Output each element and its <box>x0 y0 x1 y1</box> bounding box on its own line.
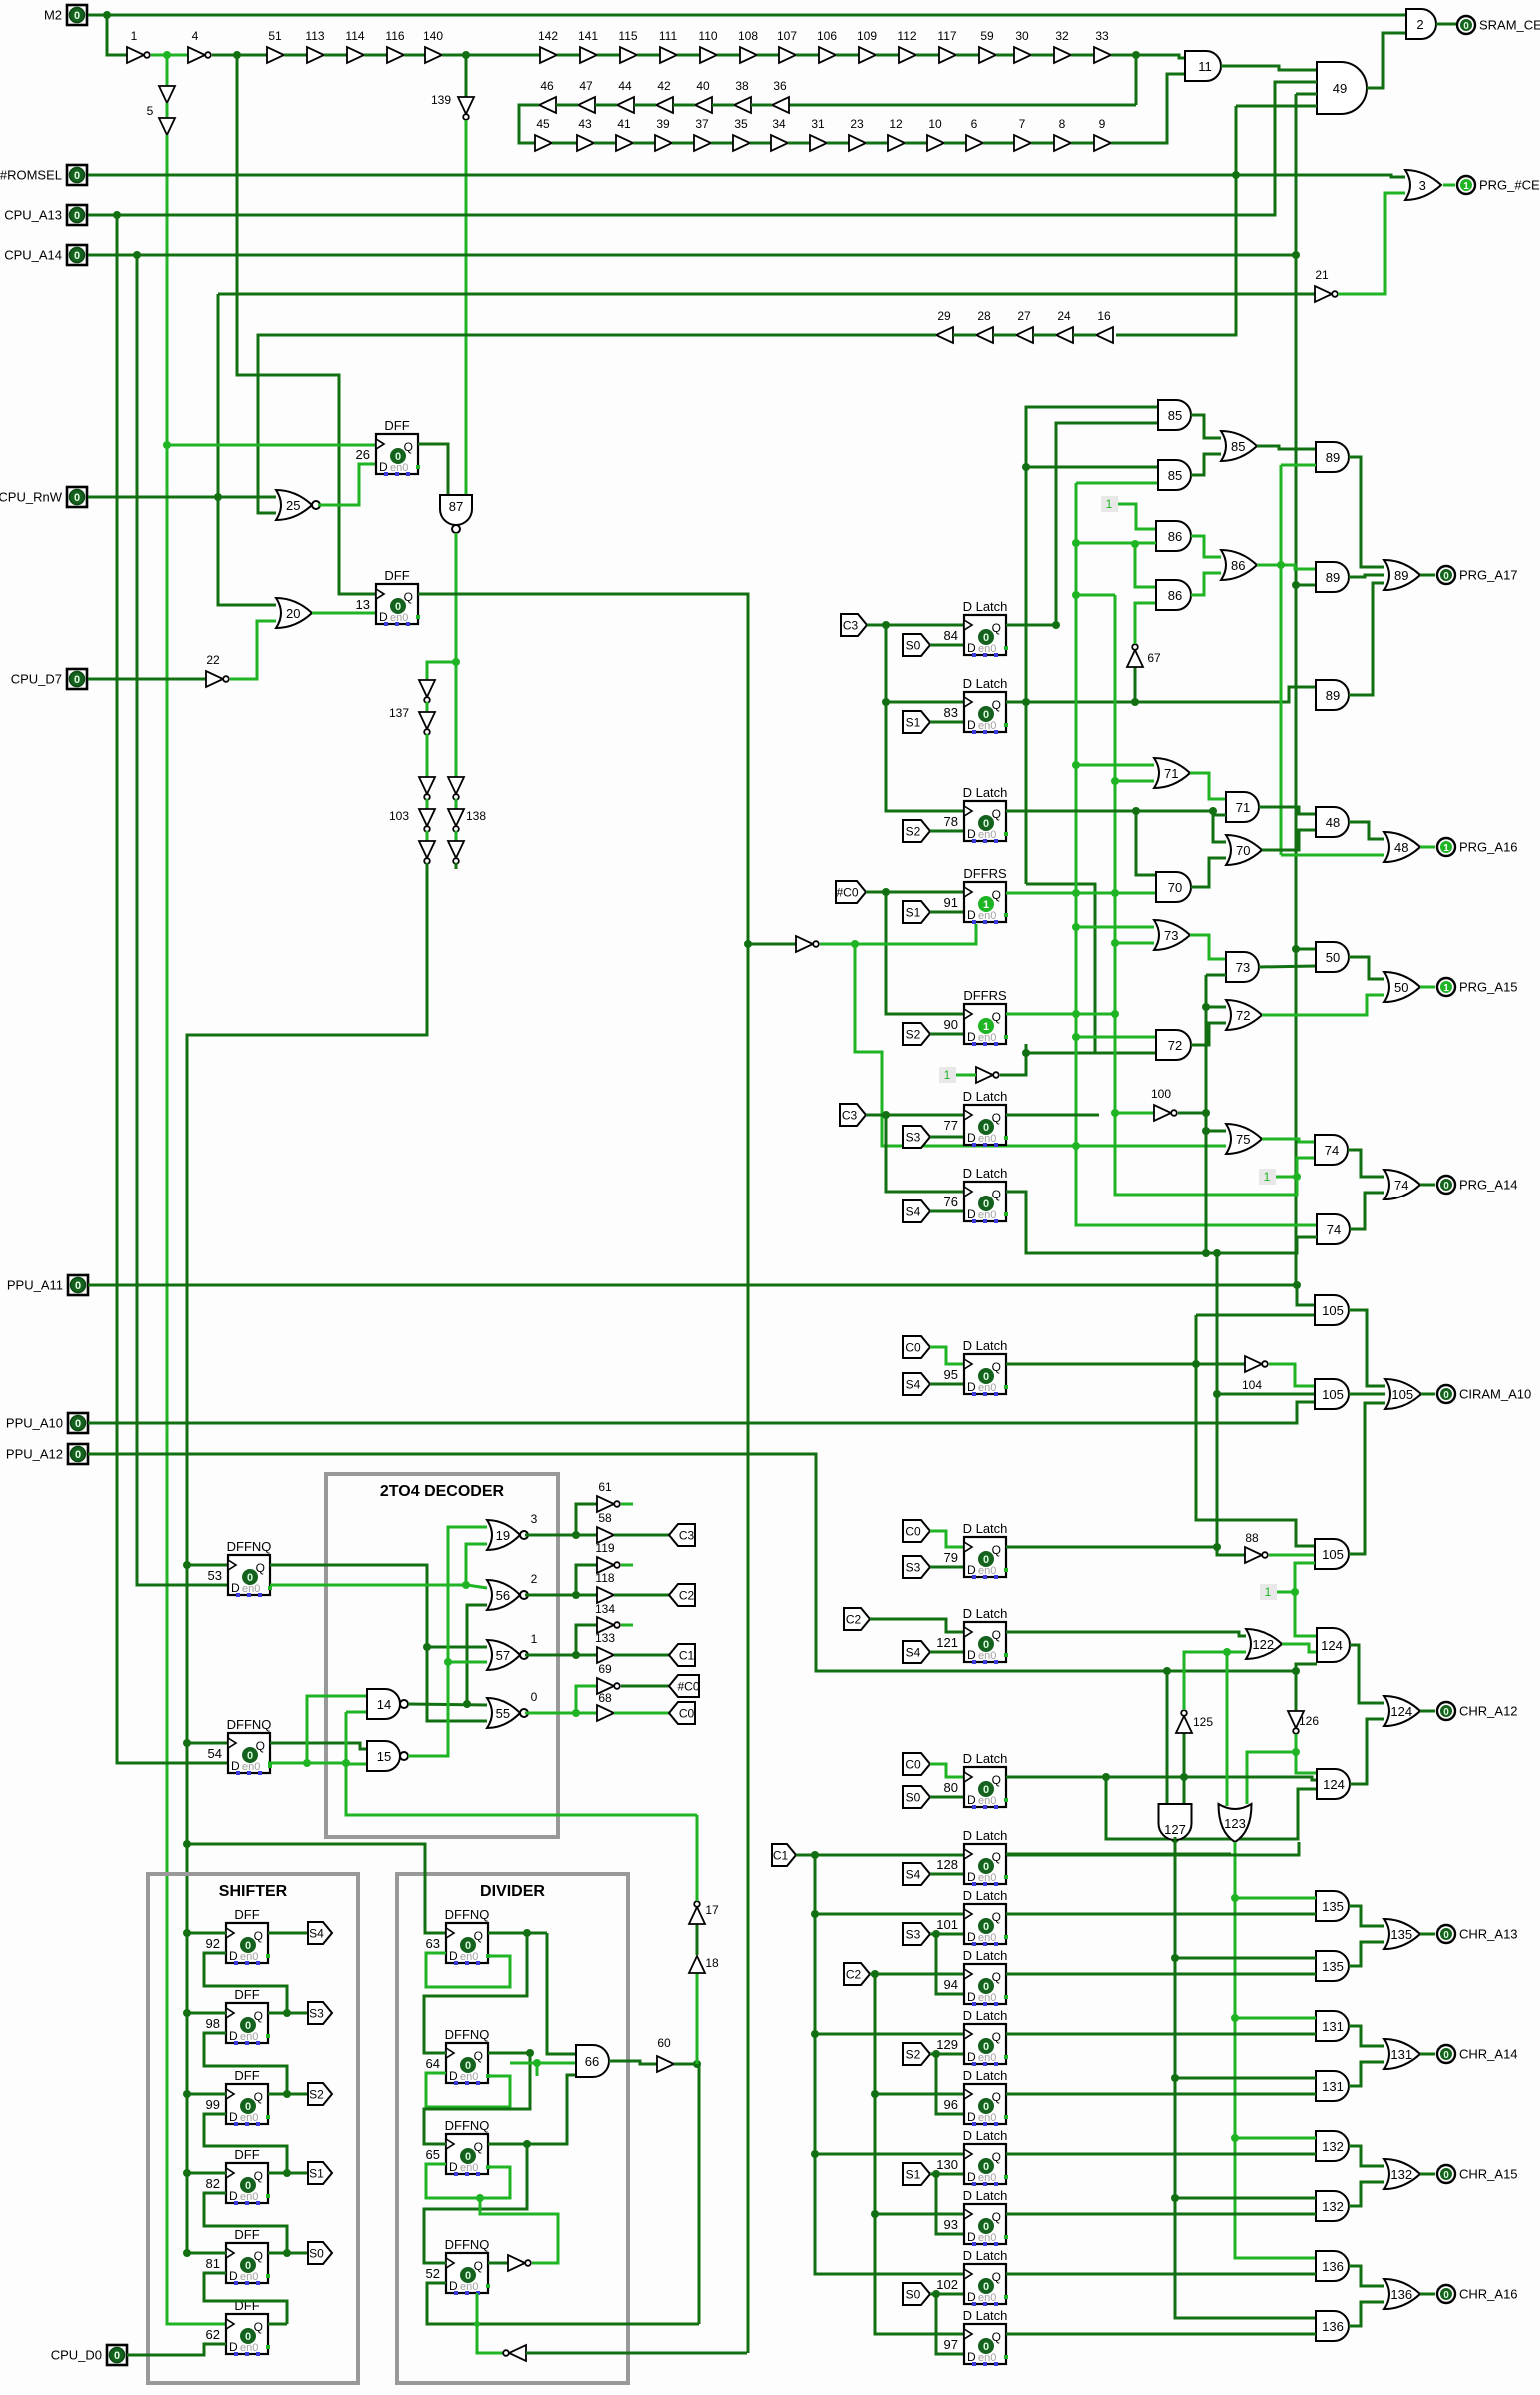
svg-text:D: D <box>967 1870 976 1884</box>
svg-text:1: 1 <box>1443 843 1449 854</box>
svg-text:119: 119 <box>595 1541 614 1555</box>
group box 2TO4 DECODER <box>326 1474 558 1837</box>
wire between buffer 5 <box>166 103 169 118</box>
wire chain seg <box>916 54 939 57</box>
wire CPU_A14 <box>88 254 1296 257</box>
wire inv69 out <box>621 1685 669 1688</box>
svg-text:C0: C0 <box>905 1758 921 1772</box>
wire x1282 vertical <box>1280 465 1283 855</box>
wire const down to 124a <box>1295 1592 1317 1636</box>
svg-text:113: 113 <box>305 29 324 43</box>
svg-text:32: 32 <box>1055 29 1069 43</box>
svg-text:Q: Q <box>992 2090 1001 2104</box>
wire chain1 seg <box>284 54 307 57</box>
AND gate 71 <box>1226 792 1259 822</box>
wire chain seg <box>796 54 819 57</box>
AND gate 132b <box>1316 2191 1349 2221</box>
svg-text:139: 139 <box>431 93 451 107</box>
svg-text:57: 57 <box>496 1648 510 1663</box>
wire inverter bottom in <box>526 2352 747 2355</box>
OR gate 71 <box>1154 758 1190 788</box>
junction OR86 out <box>1277 561 1285 569</box>
OR gate 86 <box>1221 550 1257 580</box>
svg-text:136: 136 <box>1322 2259 1344 2274</box>
svg-text:0: 0 <box>983 1861 989 1873</box>
svg-text:1: 1 <box>983 1021 989 1033</box>
svg-text:Q: Q <box>992 2210 1001 2224</box>
wire S1 to latch 83 D <box>930 721 964 724</box>
svg-text:Q: Q <box>992 1773 1001 1787</box>
svg-text:DFFNQ: DFFNQ <box>445 1907 490 1922</box>
wire AND73 out <box>1259 966 1316 967</box>
tunnel C3 out <box>669 1524 695 1546</box>
svg-text:36: 36 <box>773 79 787 93</box>
svg-text:17: 17 <box>705 1903 719 1917</box>
wire S0 net <box>930 2293 964 2296</box>
wire shifter chain <box>204 2273 287 2324</box>
junction ROMSEL x1237 <box>1232 171 1240 179</box>
svg-text:S4: S4 <box>309 1927 324 1941</box>
wire x346 vertical <box>346 1712 697 1815</box>
wire shifter chain <box>204 2033 287 2094</box>
wire const1 to 86a <box>1118 504 1156 529</box>
wire x466 to NOR19 in2 <box>466 1544 487 1585</box>
tunnel S2 <box>903 820 930 842</box>
wire OR70 out <box>1262 830 1316 850</box>
svg-text:127: 127 <box>1164 1822 1186 1837</box>
junction bright cross <box>474 2321 480 2327</box>
junction x187 clock 92 <box>183 1929 191 1937</box>
D latch 79 <box>964 1537 1006 1577</box>
junction x1177 <box>1171 2074 1179 2082</box>
wire Q78 to AND71 <box>1213 811 1226 815</box>
svg-text:D Latch: D Latch <box>963 1338 1008 1353</box>
wire OR3 out <box>1443 184 1455 187</box>
wire 85b out <box>1191 454 1221 475</box>
svg-text:118: 118 <box>595 1571 614 1585</box>
OR gate 124 <box>1384 1696 1420 1726</box>
wire x1116 stub <box>1115 942 1154 945</box>
junction 15out x448 <box>444 1658 452 1666</box>
svg-text:85: 85 <box>1168 408 1182 423</box>
svg-text:50: 50 <box>1394 980 1408 995</box>
inverter 125 <box>1176 1716 1192 1733</box>
junction shifter chain <box>283 2169 291 2177</box>
wire Q81 to tunnel <box>268 2252 308 2255</box>
svg-text:117: 117 <box>937 29 956 43</box>
D latch 76 <box>964 1182 1006 1221</box>
tunnel C0 79 <box>903 1520 930 1542</box>
wire S3 to 94 D <box>936 1934 964 1994</box>
junction const74 <box>1293 1173 1301 1181</box>
svg-text:18: 18 <box>705 1956 719 1970</box>
svg-text:0: 0 <box>74 170 80 182</box>
svg-text:68: 68 <box>598 1691 612 1705</box>
junction M2 <box>103 11 111 19</box>
tunnel C2 94 <box>844 1963 870 1985</box>
svg-text:94: 94 <box>944 1977 958 1992</box>
wire inv100 out <box>1178 1112 1206 1115</box>
svg-text:58: 58 <box>598 1511 612 1525</box>
wire AND124a out <box>1350 1645 1384 1703</box>
wire inv126 feed <box>1295 1671 1298 1711</box>
wire S2 net <box>930 2053 964 2056</box>
buffer 58 <box>597 1527 614 1543</box>
wire const1 bright net <box>1277 1591 1295 1594</box>
inverter 1 <box>127 47 144 63</box>
wire chain 138 head <box>455 662 458 777</box>
svg-text:1: 1 <box>1106 497 1113 511</box>
svg-text:0: 0 <box>465 2060 471 2072</box>
wire 136b out <box>1349 2302 1384 2326</box>
inverter 100 <box>1154 1105 1171 1121</box>
svg-text:0: 0 <box>983 1122 989 1134</box>
svg-text:S3: S3 <box>906 1561 921 1575</box>
svg-text:1: 1 <box>1265 1585 1272 1599</box>
D latch 84 <box>964 615 1006 655</box>
NOR gate 55 <box>487 1698 520 1728</box>
D latch 121 <box>964 1622 1006 1662</box>
svg-text:S4: S4 <box>906 1378 921 1392</box>
wire x1116 to inv100 <box>1115 1112 1154 1115</box>
wire AND105c out <box>1349 1403 1385 1554</box>
junction inv4 out <box>233 51 241 59</box>
wire C3b vertical <box>886 1115 964 1192</box>
tunnel S0 102 <box>903 2283 930 2305</box>
wire clock 99 <box>187 2093 226 2096</box>
buffer 39 <box>655 135 672 151</box>
DFF 62 <box>226 2314 268 2354</box>
svg-text:D: D <box>229 2269 238 2283</box>
wire to inv119 <box>576 1565 597 1595</box>
wire x1236 stub <box>1235 1897 1316 1900</box>
wire CHR Q line <box>1006 1973 1316 1976</box>
svg-text:0: 0 <box>395 451 401 463</box>
wire inv52 in <box>488 2262 508 2265</box>
svg-text:50: 50 <box>1326 950 1340 965</box>
buffer 45 <box>535 135 552 151</box>
tunnel C0 out <box>669 1702 695 1724</box>
svg-text:138: 138 <box>466 809 486 823</box>
svg-text:124: 124 <box>1323 1777 1345 1792</box>
svg-text:D Latch: D Latch <box>963 676 1008 691</box>
svg-text:S4: S4 <box>906 1205 921 1219</box>
svg-text:71: 71 <box>1236 800 1250 815</box>
buffer 51 <box>267 47 284 63</box>
svg-text:35: 35 <box>734 117 748 131</box>
svg-text:1: 1 <box>944 1068 951 1082</box>
svg-text:Q: Q <box>992 1850 1001 1864</box>
AND gate 2 <box>1406 9 1436 39</box>
svg-text:134: 134 <box>595 1602 615 1616</box>
output pin CHR_A13 <box>1437 1925 1455 1943</box>
tunnel S3 <box>308 2002 332 2024</box>
svg-text:D: D <box>967 908 976 922</box>
svg-text:D: D <box>449 2279 458 2293</box>
wire S4 to latch 76 D <box>930 1210 964 1213</box>
svg-text:0: 0 <box>983 2221 989 2233</box>
inverter 22 <box>206 671 223 687</box>
junction x187 divider <box>183 1840 191 1848</box>
svg-text:53: 53 <box>208 1568 222 1583</box>
buffer 36 <box>772 97 789 113</box>
wire C3 vertical <box>886 625 964 811</box>
junction DFF13 net inverter tap <box>744 940 752 948</box>
svg-text:Q: Q <box>254 2009 263 2023</box>
svg-text:23: 23 <box>850 117 864 131</box>
svg-text:86: 86 <box>1168 588 1182 603</box>
wire chain seg <box>637 54 660 57</box>
svg-text:0: 0 <box>1443 2170 1449 2181</box>
wire S3 net <box>930 1933 964 1936</box>
svg-text:D Latch: D Latch <box>963 599 1008 614</box>
wire 131b out <box>1349 2062 1384 2086</box>
svg-text:Q: Q <box>992 1111 1001 1125</box>
junction x1116 1014 <box>1111 1010 1119 1018</box>
output pin CHR_A12 <box>1437 1702 1455 1720</box>
svg-text:100: 100 <box>1151 1087 1171 1101</box>
svg-text:D: D <box>967 2170 976 2184</box>
svg-text:105: 105 <box>1391 1387 1413 1402</box>
svg-text:C0: C0 <box>679 1707 695 1721</box>
OR gate 122 <box>1246 1629 1282 1659</box>
svg-text:140: 140 <box>423 29 443 43</box>
svg-text:61: 61 <box>598 1480 612 1494</box>
junction Qn53 x466 <box>462 1581 470 1589</box>
AND gate 85b <box>1158 460 1191 490</box>
svg-text:Q: Q <box>474 2259 483 2273</box>
junction C1 <box>811 1851 819 1859</box>
D latch 95 <box>964 1354 1006 1394</box>
wire chain seg <box>677 54 700 57</box>
svg-text:104: 104 <box>1242 1378 1262 1392</box>
svg-text:S2: S2 <box>906 1028 921 1042</box>
wire x1116 vertical <box>1115 595 1297 1195</box>
wire inverter 22 out <box>230 621 276 679</box>
wire chain1 seg <box>212 54 267 57</box>
wire C3b to latch 77 <box>866 1114 964 1117</box>
AND gate 132a <box>1316 2131 1349 2161</box>
svg-text:141: 141 <box>578 29 598 43</box>
svg-text:0: 0 <box>114 2350 120 2362</box>
svg-text:115: 115 <box>618 29 637 43</box>
buffer 42 <box>656 97 673 113</box>
svg-text:SHIFTER: SHIFTER <box>219 1883 288 1900</box>
svg-text:D Latch: D Latch <box>963 2248 1008 2263</box>
wire 135b out <box>1349 1942 1384 1966</box>
inverter 126 <box>1288 1711 1304 1728</box>
DFF 81 <box>226 2243 268 2283</box>
wire Q128 <box>1006 1853 1231 1856</box>
junction x1297 AND50 <box>1292 945 1300 953</box>
wire S2 to DFFRS90 D <box>930 1033 964 1036</box>
wire inv88 out <box>1269 1554 1315 1557</box>
svg-text:PRG_A15: PRG_A15 <box>1459 980 1518 995</box>
svg-text:0: 0 <box>983 2041 989 2053</box>
DFF 92 <box>226 1923 268 1963</box>
junction x1077 1146 <box>1072 1142 1080 1150</box>
junction CPU_A13 <box>113 211 121 219</box>
svg-text:DFF: DFF <box>384 418 409 433</box>
wire inverter 139 out bright <box>465 120 468 495</box>
constant 1 top <box>1101 496 1118 512</box>
wire Q99 to tunnel <box>268 2093 308 2096</box>
input pin PPU_A11 <box>68 1275 88 1295</box>
wire AND74a out <box>1348 1150 1384 1177</box>
wire Q84 net <box>1006 624 1056 627</box>
svg-text:46: 46 <box>540 79 554 93</box>
svg-text:83: 83 <box>944 705 958 720</box>
wire CPU_A13 <box>88 82 1317 215</box>
wire x1237 top to AND49 <box>1236 105 1317 108</box>
wire x1282 to 89a <box>1281 464 1316 467</box>
AND gate 89b <box>1316 562 1349 592</box>
svg-text:131: 131 <box>1322 2079 1344 2094</box>
wire S4 to latch121 D <box>930 1651 964 1654</box>
svg-text:39: 39 <box>656 117 670 131</box>
buffer 141 <box>580 47 597 63</box>
wire to inv69 <box>576 1686 597 1713</box>
svg-text:D: D <box>229 1949 238 1963</box>
junction x1236 bright <box>1231 1894 1239 1902</box>
wire AND127 in2 <box>1183 1777 1186 1804</box>
input pin CPU_A13 <box>67 205 87 225</box>
OR gate 131 <box>1384 2039 1420 2069</box>
wire chain seg <box>455 831 458 841</box>
wire C2 net <box>870 1973 964 1976</box>
wire x1077 stub <box>1076 926 1154 929</box>
svg-text:D Latch: D Latch <box>963 1521 1008 1536</box>
AND gate 124a <box>1317 1628 1350 1662</box>
input pin CPU_A14 <box>67 245 87 265</box>
svg-text:0: 0 <box>983 1981 989 1993</box>
wire Q79 net <box>1006 1546 1217 1549</box>
AND gate 85a <box>1158 400 1191 430</box>
wire x1077 to x1116 <box>1076 594 1115 597</box>
svg-text:C1: C1 <box>773 1849 789 1863</box>
wire OR85 out <box>1257 446 1316 449</box>
svg-text:DFFNQ: DFFNQ <box>227 1717 272 1732</box>
inverter 119 <box>597 1557 614 1573</box>
svg-text:D: D <box>449 2160 458 2174</box>
svg-text:S1: S1 <box>309 2167 324 2181</box>
svg-text:114: 114 <box>345 29 364 43</box>
AND gate 66 <box>576 2045 609 2077</box>
wire chain seg <box>597 54 620 57</box>
wire chain seg <box>717 54 740 57</box>
svg-text:79: 79 <box>944 1550 958 1565</box>
svg-text:Q: Q <box>992 1970 1001 1984</box>
wire S4 to 128 D <box>930 1873 964 1876</box>
wire x1218 to AND105a <box>1217 1393 1315 1396</box>
svg-text:105: 105 <box>1322 1547 1344 1562</box>
svg-text:D: D <box>231 1581 240 1595</box>
svg-text:D Latch: D Latch <box>963 2128 1008 2143</box>
OR gate 135 <box>1384 1919 1420 1949</box>
svg-text:0: 0 <box>983 818 989 830</box>
inverter chain 138 seg2 <box>448 841 464 858</box>
svg-text:PPU_A11: PPU_A11 <box>7 1278 63 1293</box>
junction Q91 x1077 <box>1072 889 1080 897</box>
svg-text:132: 132 <box>1390 2167 1412 2182</box>
wire AND49 out to AND2 <box>1367 33 1406 88</box>
wire chain1 seg <box>404 54 425 57</box>
junction CPU_A14 x1297 <box>1292 251 1300 259</box>
wire S3 to latch 77 D <box>930 1136 964 1139</box>
D latch 80 <box>964 1767 1006 1807</box>
wire OR136 out <box>1420 2293 1435 2296</box>
wire #C0 vertical <box>886 892 964 1014</box>
svg-text:132: 132 <box>1322 2199 1344 2214</box>
svg-text:72: 72 <box>1168 1038 1182 1053</box>
junction const90 AND72 <box>1022 1049 1030 1057</box>
wire AND127 out down <box>1175 1837 1316 2318</box>
wire to OR122 in2 <box>1227 1651 1246 1654</box>
inverter 139 <box>458 97 474 114</box>
wire AND74c out <box>1350 1193 1384 1229</box>
wire DFFNQ 65 loop <box>426 2164 510 2198</box>
svg-text:0: 0 <box>1443 1390 1449 1401</box>
buffer 142 <box>540 47 557 63</box>
output pin PRG_A14 <box>1437 1176 1455 1194</box>
wire chain seg <box>426 799 429 809</box>
wire x1237 vertical <box>1116 106 1236 335</box>
inverter 52 out <box>508 2255 525 2271</box>
junction inv126 out <box>1292 1748 1300 1756</box>
tunnel S3 101 <box>903 1923 930 1945</box>
svg-text:S1: S1 <box>906 906 921 920</box>
buffer 106 <box>819 47 836 63</box>
svg-text:CPU_D7: CPU_D7 <box>11 672 62 687</box>
DFFNQ 53 <box>228 1555 270 1595</box>
wire chain seg <box>426 702 429 712</box>
svg-text:PRG_A16: PRG_A16 <box>1459 840 1518 855</box>
svg-text:D Latch: D Latch <box>963 2308 1008 2323</box>
wire chain3 seg <box>552 142 577 145</box>
wire NAND87 out <box>455 533 458 662</box>
wire chain seg <box>996 54 1014 57</box>
wire 64 mid to loop <box>536 2063 539 2076</box>
wire NAND15 out <box>408 1527 487 1756</box>
svg-text:Q: Q <box>992 1628 1001 1642</box>
svg-text:CHR_A13: CHR_A13 <box>1459 1927 1518 1942</box>
svg-text:Q: Q <box>992 2030 1001 2044</box>
wire AND70 out <box>1191 858 1226 887</box>
AND gate 11 <box>1185 51 1221 81</box>
svg-text:Q: Q <box>992 1543 1001 1557</box>
wire row2 seg <box>751 104 772 107</box>
svg-text:0: 0 <box>75 1449 81 1461</box>
wire chain3 seg <box>905 142 927 145</box>
svg-text:1: 1 <box>1264 1170 1271 1184</box>
svg-text:S0: S0 <box>906 639 921 653</box>
svg-text:Q: Q <box>474 2049 483 2063</box>
output pin CHR_A15 <box>1437 2165 1455 2183</box>
tunnel S2 dffrs <box>903 1023 930 1045</box>
wire buffer118 out <box>614 1594 669 1597</box>
svg-text:130: 130 <box>936 2157 958 2172</box>
wire 86a out <box>1191 536 1221 557</box>
input pin M2 <box>67 5 87 25</box>
D latch 94 <box>964 1964 1006 2004</box>
junction 65 loop <box>476 2194 484 2202</box>
svg-text:97: 97 <box>944 2337 958 2352</box>
svg-text:DFF: DFF <box>234 2068 259 2083</box>
wire S1 to DFFRS91 D <box>930 911 964 914</box>
svg-text:0: 0 <box>245 1940 251 1952</box>
AND gate 105a <box>1315 1379 1349 1409</box>
wire x1136 to 86b in1 <box>1135 544 1156 587</box>
